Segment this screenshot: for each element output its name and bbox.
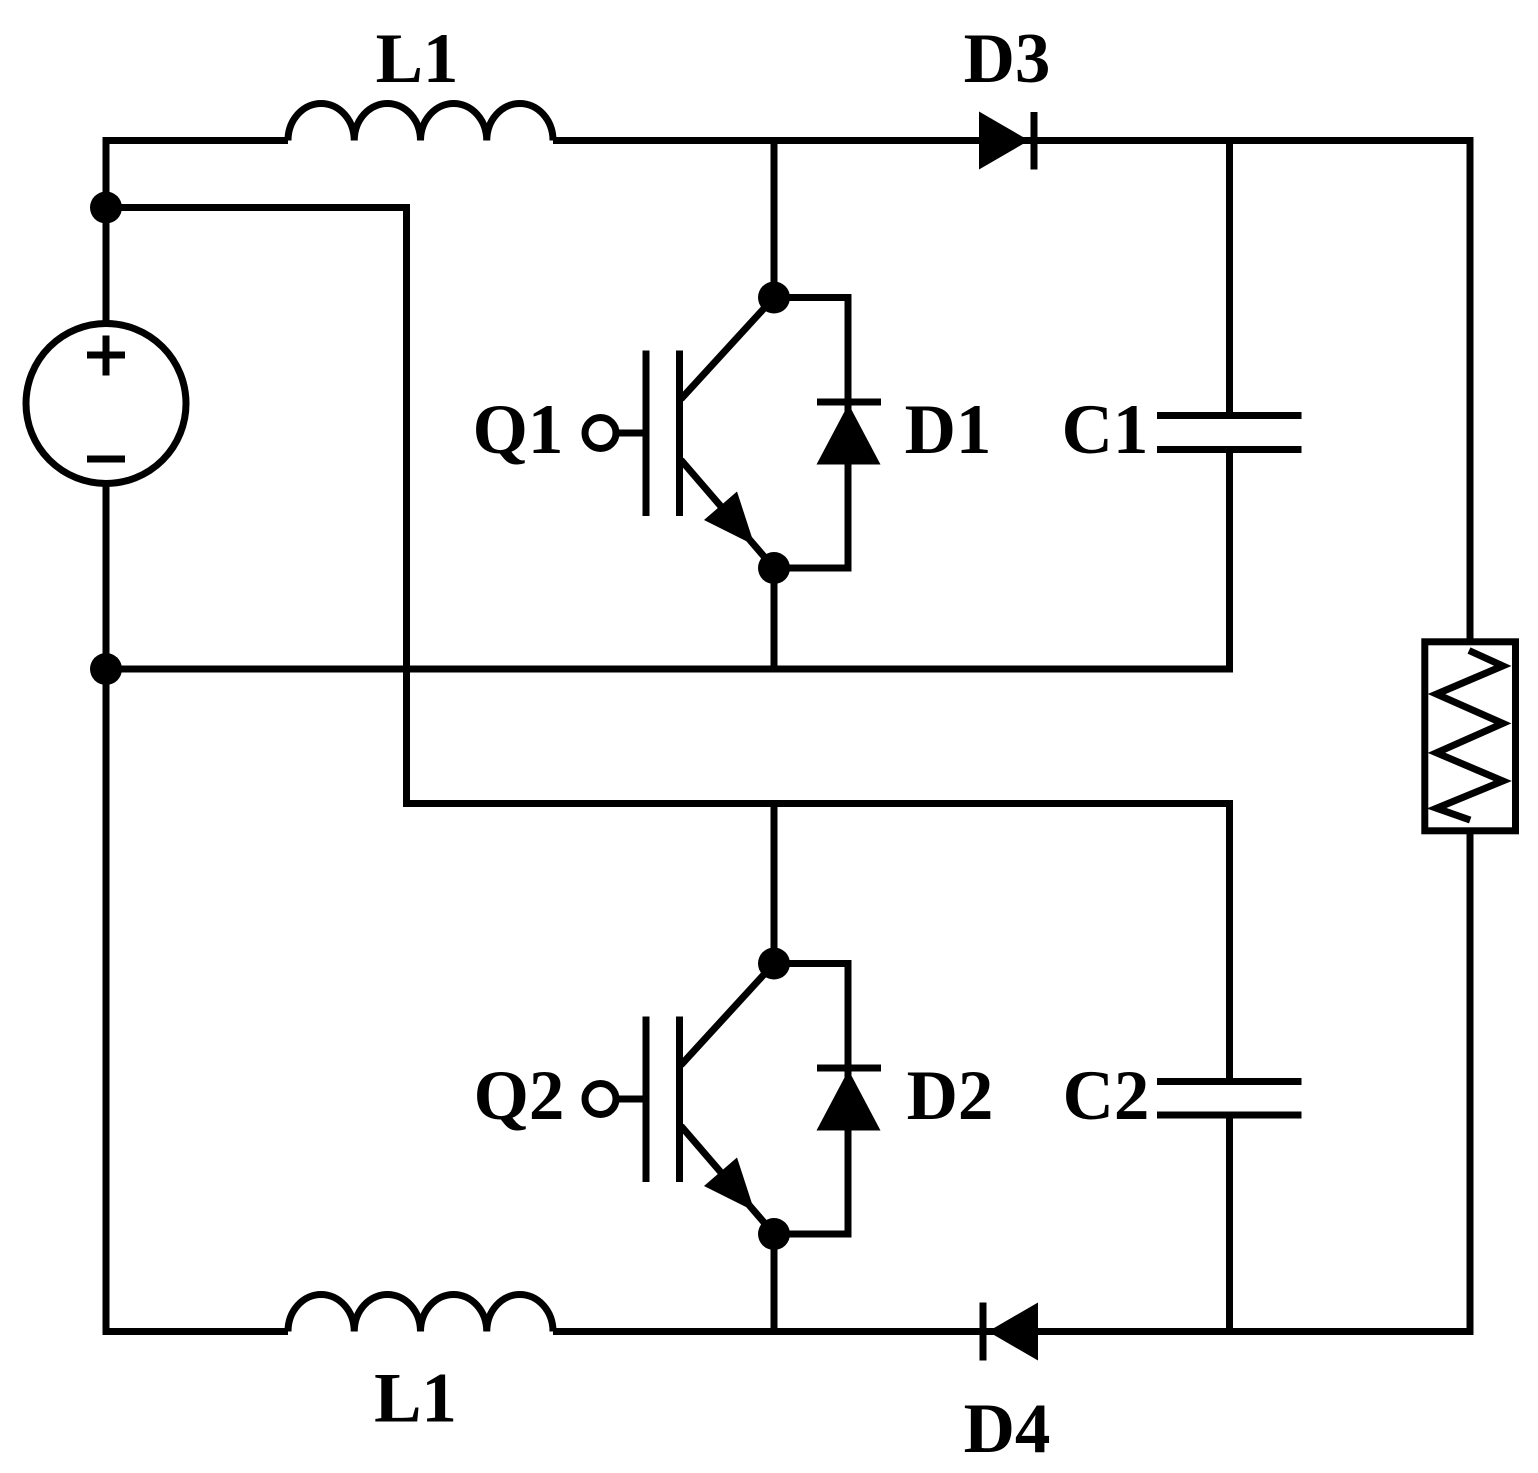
transistor Q1 (IGBT) (585, 298, 774, 569)
inductor L1 (top) (288, 104, 553, 141)
node Q2 emitter (758, 1218, 790, 1250)
voltage source V1 (26, 324, 186, 484)
svg-text:C2: C2 (1063, 1057, 1150, 1135)
svg-text:C1: C1 (1062, 391, 1149, 469)
wire C1 top riser (1226, 141, 1233, 416)
wire C2 bottom riser (1226, 1115, 1233, 1332)
wire mid rail y=669 with C1 bottom riser (106, 450, 1230, 670)
node B (return rail junction) (90, 653, 122, 685)
wire D2 branch (774, 964, 848, 1235)
svg-text:D3: D3 (964, 20, 1051, 98)
svg-text:D4: D4 (964, 1390, 1051, 1468)
wire source bottom to bottom-left corner (106, 484, 288, 1332)
svg-text:Q1: Q1 (473, 391, 564, 469)
diode D2 (817, 1068, 882, 1131)
node A (input plus junction) (90, 192, 122, 224)
svg-text:L1: L1 (374, 1360, 457, 1438)
wire Q1 collector tap (771, 141, 778, 298)
wire Q2 collector tap (771, 804, 778, 964)
diode D1 (817, 402, 882, 465)
wire node A to lower phase feed (106, 208, 1230, 1082)
diode D3 (979, 112, 1034, 170)
wire Q2 emitter drop (771, 1234, 778, 1332)
svg-text:D2: D2 (907, 1057, 994, 1135)
wire top rail right segment (553, 141, 1470, 642)
wire D1 branch (774, 298, 848, 569)
resistor R load (1425, 642, 1516, 831)
svg-text:Q2: Q2 (474, 1057, 565, 1135)
capacitor C2 (1157, 1082, 1302, 1116)
wire Q1 emitter drop (771, 568, 778, 669)
svg-text:D1: D1 (905, 391, 992, 469)
svg-text:L1: L1 (376, 20, 459, 98)
diode D4 (983, 1303, 1038, 1361)
wire bottom rail right segment (553, 831, 1470, 1332)
capacitor C1 (1157, 416, 1302, 450)
node Q1 emitter (758, 552, 790, 584)
transistor Q2 (IGBT) (585, 964, 774, 1235)
node Q2 collector (758, 948, 790, 980)
inductor L1 (bottom) (288, 1295, 553, 1332)
wire top rail left segment (106, 141, 288, 324)
node Q1 collector (758, 282, 790, 314)
